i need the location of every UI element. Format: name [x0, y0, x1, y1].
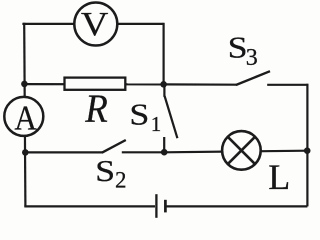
- resistor R: [65, 78, 126, 90]
- wire middle (resistor branch): [24, 83, 163, 86]
- wire left rail: [24, 23, 25, 207]
- svg-text:L: L: [268, 157, 290, 197]
- switch S1: [164, 84, 177, 152]
- node dot center (R/V/S1/S3): [160, 81, 167, 88]
- wire bottom right of battery: [166, 205, 307, 207]
- lamp L: [222, 131, 261, 170]
- switch S2 blade: [102, 140, 126, 153]
- voltmeter V: [74, 3, 117, 46]
- wire S3 feed: [164, 83, 237, 85]
- svg-text:2: 2: [115, 168, 127, 193]
- node dot S1 bottom: [161, 149, 168, 156]
- wire right rail: [306, 84, 308, 207]
- svg-text:V: V: [81, 6, 109, 43]
- svg-text:1: 1: [151, 112, 162, 136]
- svg-text:3: 3: [246, 45, 258, 71]
- ammeter A: [4, 97, 43, 136]
- wire lower-left (S2 feed): [25, 151, 102, 153]
- node dot left lower: [22, 149, 29, 156]
- node dot left upper: [21, 81, 28, 88]
- node dot lamp right: [304, 147, 311, 154]
- wire top-right vertical drop: [163, 23, 165, 85]
- wire S2 right: [122, 151, 165, 153]
- wire top horizontal: [22, 23, 163, 25]
- wire bottom left of battery: [24, 205, 155, 207]
- svg-text:S: S: [129, 97, 149, 132]
- svg-text:R: R: [84, 86, 107, 131]
- svg-text:S: S: [228, 30, 248, 65]
- wire lower (lamp branch): [164, 151, 307, 153]
- switch S3 blade: [236, 71, 270, 85]
- svg-text:S: S: [95, 153, 115, 188]
- svg-text:A: A: [14, 98, 37, 137]
- battery B1 long plate (+): [155, 194, 157, 218]
- wire S3 right: [267, 84, 308, 86]
- battery B1 short plate (-): [164, 200, 167, 213]
